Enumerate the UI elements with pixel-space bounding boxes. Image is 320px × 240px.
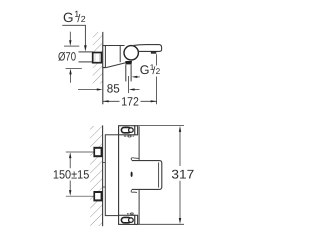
body (plan) [119,126,140,224]
shower outlet tube [125,64,127,81]
bottom handle (plan) [119,215,135,224]
wall hatching (plan) [90,126,102,226]
svg-text:Ø70: Ø70 [58,50,76,64]
upper union nut (plan) [66,151,94,153]
svg-text:150±15: 150±15 [53,167,90,181]
outlet centre extension line [128,76,130,93]
wall face line (top view) + extension for 85/172 dims [102,32,104,104]
union nut in wall [93,53,102,63]
dimension 172 [103,100,120,102]
mousseur outlet under spout [151,51,156,53]
svg-text:317: 317 [171,167,194,181]
svg-text:85: 85 [107,82,120,96]
escutcheon plate (edge-on) [105,135,118,216]
escutcheon (O70 flange) [103,46,106,68]
svg-text:G: G [63,10,74,25]
cartridge housing edge [119,46,121,63]
supply pipe behind wall [79,52,93,62]
svg-text:2: 2 [81,14,86,24]
body cone [103,45,125,47]
spout (plan view) [132,161,162,190]
leader arrowhead (points down to supply pipe) [84,45,87,51]
outlet nut under circle [125,61,132,64]
temperature scale marks below top handle [124,135,133,137]
lower union nut (plan) [66,195,94,197]
marking dot on spout [131,172,133,177]
dimension 150 +/- 15 [69,158,71,168]
joint ticks between wall and plate [103,162,106,164]
thermostat cap circle [124,46,138,60]
wall hatching (top view) [93,32,103,84]
spout root curl (bottom) [131,190,137,193]
spout (side view) [132,45,162,52]
leader arrow for lower G 1/2 [136,76,140,78]
svg-text:172: 172 [121,94,139,108]
wall face line (plan) [102,125,104,226]
top handle (plan) [119,126,135,135]
svg-text:G: G [140,63,150,77]
scale marks above bottom handle [127,213,133,215]
spout root curl (top) [131,158,139,161]
dimension 85 [78,89,97,91]
svg-text:2: 2 [156,67,161,76]
dimension 317 [138,125,184,127]
leader line for top G 1/2 [62,25,85,45]
spout end inner line [158,162,160,187]
spout outlet extension line [156,54,158,65]
